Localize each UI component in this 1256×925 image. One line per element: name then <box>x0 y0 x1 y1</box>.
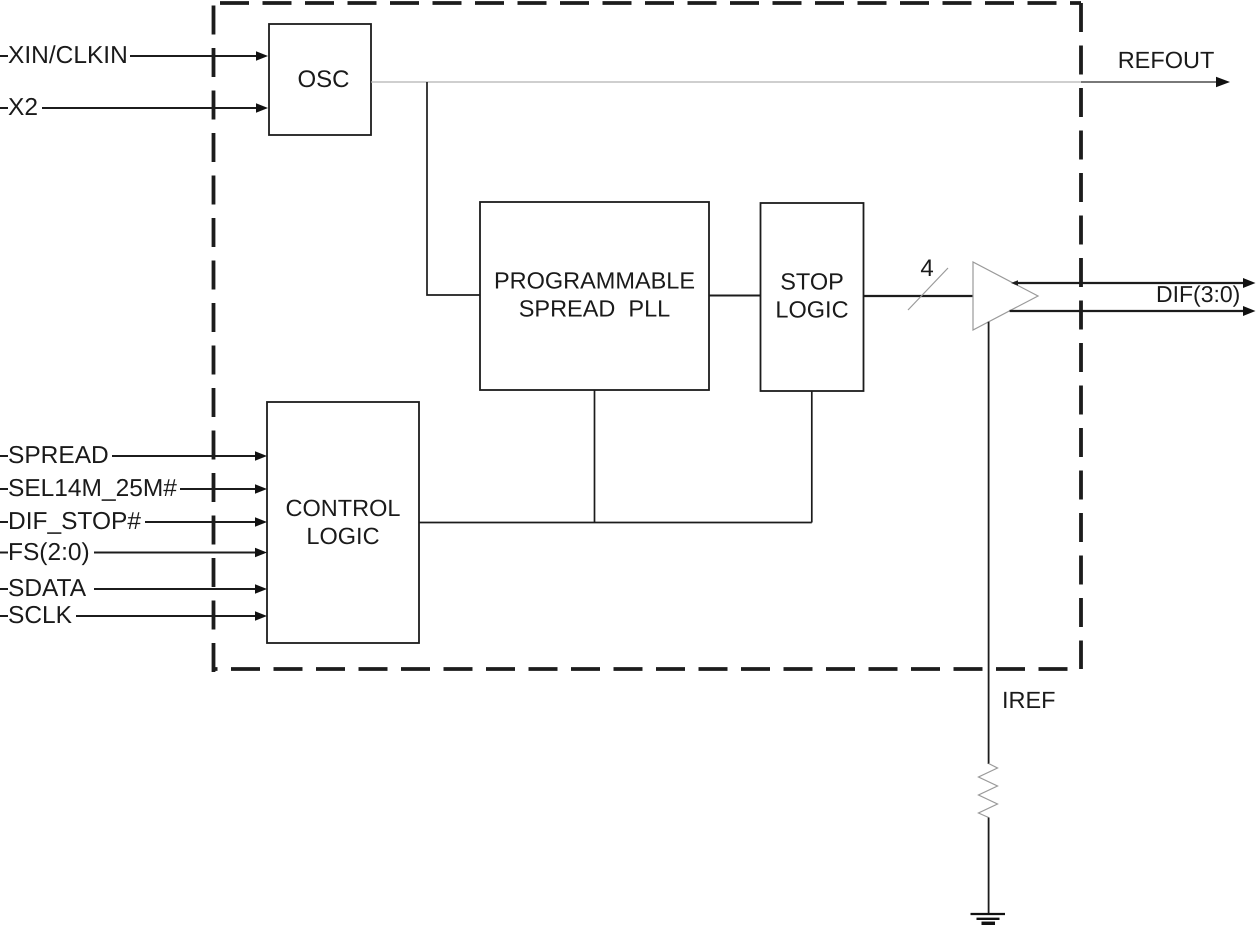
net OSC output to REFOUT (inside chip, light) <box>371 81 1081 83</box>
wire OSC to PLL <box>427 82 480 295</box>
svg-text:STOP: STOP <box>780 268 844 294</box>
resistor R (IREF) <box>979 764 998 818</box>
wire SEL14M_25M# input <box>0 488 257 490</box>
wire DIF output bottom <box>1010 310 1244 312</box>
svg-text:REFOUT: REFOUT <box>1118 47 1215 73</box>
wire PLL to STOP LOGIC <box>709 295 761 297</box>
svg-text:SCLK: SCLK <box>8 602 73 629</box>
wire CONTROL LOGIC output <box>419 522 812 524</box>
arrowhead SEL14M_25M# <box>255 484 267 494</box>
label SCLK <box>8 602 76 629</box>
arrowhead XIN/CLKIN <box>256 51 268 61</box>
svg-text:FS(2:0): FS(2:0) <box>8 539 90 566</box>
svg-text:X2: X2 <box>8 94 38 121</box>
svg-text:SEL14M_25M#: SEL14M_25M# <box>8 475 177 502</box>
wire STOP LOGIC to output buffer (4-bit bus) <box>864 295 974 297</box>
label X2 <box>8 94 42 121</box>
small arrowhead at DIF+ line start <box>1011 280 1018 286</box>
wire XIN/CLKIN input <box>0 55 258 57</box>
wire FS(2:0) input <box>0 551 257 553</box>
ground symbol <box>971 914 1006 923</box>
label SEL14M_25M# <box>8 475 180 502</box>
arrowhead DIF bottom <box>1243 306 1256 316</box>
arrowhead DIF top <box>1243 278 1256 288</box>
wire SPREAD input <box>0 455 257 457</box>
block CONTROL LOGIC <box>267 402 419 643</box>
wire STOP LOGIC bottom to control net <box>811 391 813 523</box>
label DIF_STOP# <box>8 508 145 535</box>
svg-text:IREF: IREF <box>1002 687 1056 713</box>
arrowhead X2 <box>256 103 268 113</box>
svg-text:OSC: OSC <box>297 66 349 93</box>
svg-text:4: 4 <box>920 255 933 282</box>
chip boundary dashed border <box>214 3 1082 672</box>
wire DIF_STOP# input <box>0 521 257 523</box>
svg-text:SDATA: SDATA <box>8 575 87 602</box>
label FS(2:0) <box>8 539 94 566</box>
svg-text:SPREAD PLL: SPREAD PLL <box>519 296 671 322</box>
label XIN/CLKIN <box>8 42 130 69</box>
svg-text:DIF(3:0): DIF(3:0) <box>1156 281 1240 307</box>
svg-text:PROGRAMMABLE: PROGRAMMABLE <box>494 268 695 294</box>
svg-text:DIF_STOP#: DIF_STOP# <box>8 508 141 535</box>
svg-text:LOGIC: LOGIC <box>306 523 379 549</box>
bus width slash <box>908 268 948 310</box>
arrowhead SCLK <box>255 611 267 621</box>
wire resistor to ground <box>988 818 990 914</box>
label SDATA <box>8 575 94 602</box>
arrowhead FS(2:0) <box>255 548 267 558</box>
output buffer triangle <box>973 262 1038 330</box>
block STOP LOGIC <box>761 203 864 391</box>
arrowhead REFOUT <box>1216 77 1230 87</box>
arrowhead SDATA <box>255 584 267 594</box>
svg-text:CONTROL: CONTROL <box>286 495 401 521</box>
svg-text:LOGIC: LOGIC <box>775 297 848 323</box>
wire PLL bottom to control net <box>594 390 596 523</box>
arrowhead DIF_STOP# <box>255 517 267 527</box>
arrowhead SPREAD <box>255 451 267 461</box>
wire SCLK input <box>0 615 257 617</box>
block PROGRAMMABLE SPREAD PLL <box>480 202 709 390</box>
block OSC <box>269 24 371 135</box>
net IREF vertical wire from buffer <box>988 322 990 764</box>
svg-text:XIN/CLKIN: XIN/CLKIN <box>8 42 128 69</box>
label SPREAD <box>8 442 112 469</box>
wire SDATA input <box>0 588 257 590</box>
wire REFOUT (outside chip) <box>1081 81 1217 83</box>
wire X2 input <box>0 107 258 109</box>
wire DIF output top <box>1014 282 1244 284</box>
svg-text:SPREAD: SPREAD <box>8 442 109 469</box>
